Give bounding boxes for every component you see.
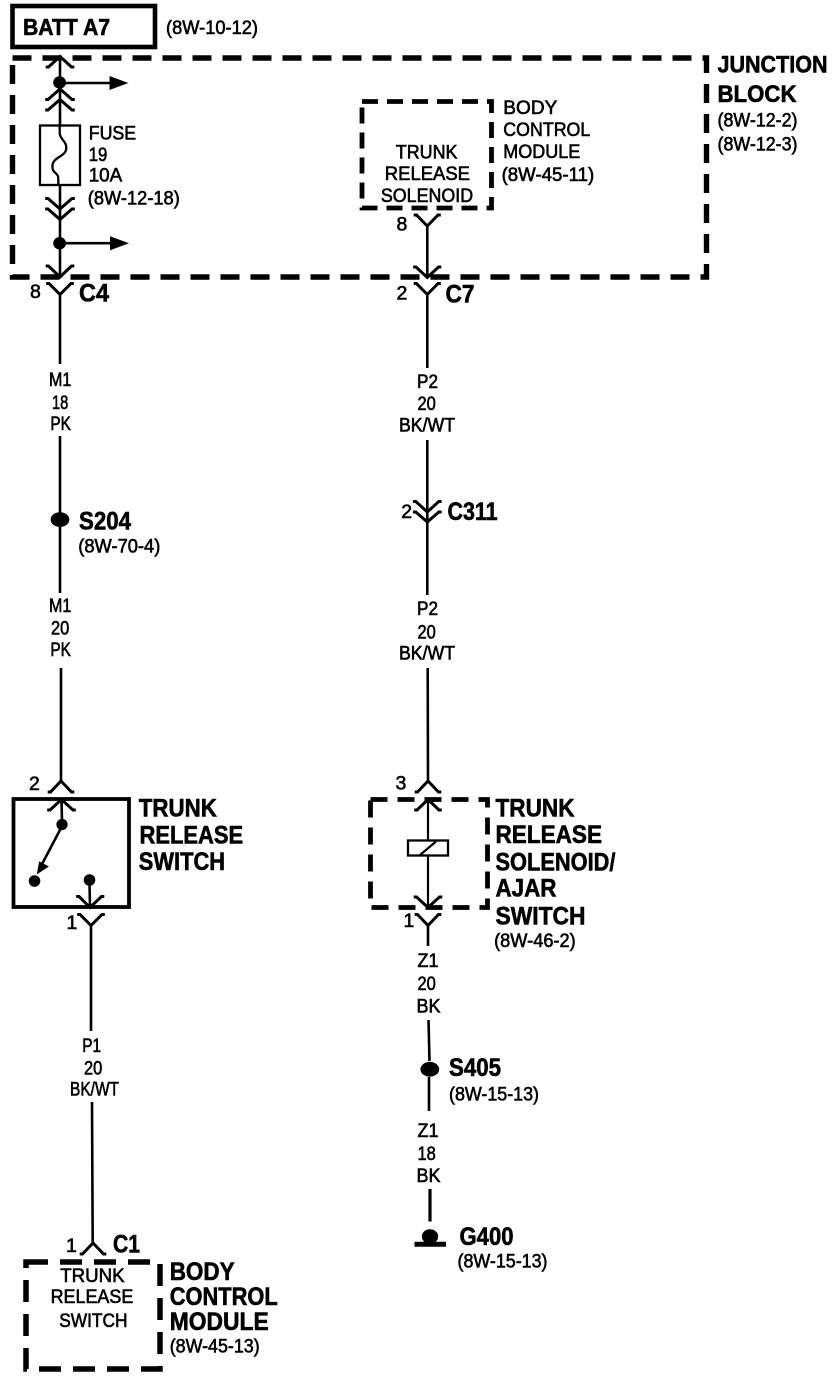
svg-text:RELEASE: RELEASE xyxy=(140,822,244,850)
pin 1 connector below solenoid box xyxy=(404,910,442,946)
double chevron above fuse xyxy=(45,89,75,110)
svg-text:G400: G400 xyxy=(460,1223,514,1251)
svg-text:SOLENOID/: SOLENOID/ xyxy=(496,848,616,876)
trunk release solenoid/ajar switch dashed box xyxy=(371,800,488,908)
feed arrow (bottom) xyxy=(60,236,129,250)
svg-text:18: 18 xyxy=(418,1144,436,1165)
svg-text:P2: P2 xyxy=(417,599,438,620)
junction node dot (top) xyxy=(53,76,66,88)
svg-text:19: 19 xyxy=(89,145,108,166)
wire to trunk release switch xyxy=(60,668,63,781)
svg-text:BODY: BODY xyxy=(503,98,557,119)
svg-text:AJAR: AJAR xyxy=(496,875,557,903)
svg-text:BK/WT: BK/WT xyxy=(399,415,455,436)
wire segment to C1 xyxy=(91,1102,94,1243)
svg-text:MODULE: MODULE xyxy=(170,1308,269,1336)
svg-text:TRUNK: TRUNK xyxy=(60,1266,125,1287)
svg-text:Z1: Z1 xyxy=(418,1121,439,1142)
svg-text:2: 2 xyxy=(29,773,40,795)
wire label Z1 20 BK xyxy=(417,951,441,1018)
svg-text:20: 20 xyxy=(418,622,436,643)
trunk release switch box xyxy=(14,799,130,907)
svg-text:(8W-46-2): (8W-46-2) xyxy=(494,931,576,952)
svg-text:S204: S204 xyxy=(79,507,131,535)
connector C311 xyxy=(401,498,497,526)
wire segment to splice xyxy=(59,436,62,513)
svg-text:(8W-15-13): (8W-15-13) xyxy=(449,1085,539,1106)
svg-text:CONTROL: CONTROL xyxy=(170,1283,278,1311)
fuse label FUSE 19 10A (8W-12-18) xyxy=(88,124,180,210)
svg-text:(8W-12-2): (8W-12-2) xyxy=(718,110,798,131)
solenoid coil symbol xyxy=(408,841,448,856)
chevron at C4 crossing xyxy=(46,266,75,277)
svg-text:S405: S405 xyxy=(449,1054,501,1082)
svg-text:18: 18 xyxy=(52,393,68,414)
wire fuse to C4 xyxy=(59,185,62,276)
svg-text:SWITCH: SWITCH xyxy=(496,902,586,930)
trunk release switch label xyxy=(139,795,243,876)
svg-text:2: 2 xyxy=(401,501,412,523)
svg-text:20: 20 xyxy=(418,974,436,995)
svg-text:M1: M1 xyxy=(49,370,71,391)
svg-text:(8W-12-3): (8W-12-3) xyxy=(718,134,798,155)
svg-text:C1: C1 xyxy=(113,1231,140,1259)
svg-text:BK/WT: BK/WT xyxy=(399,643,455,664)
svg-text:(8W-45-11): (8W-45-11) xyxy=(502,165,595,186)
wire solenoid to pin 1 xyxy=(427,856,429,908)
svg-text:1: 1 xyxy=(67,912,78,934)
pin 3 connector at solenoid/ajar switch xyxy=(396,773,442,795)
double chevron below fuse xyxy=(45,199,75,220)
svg-text:RELEASE: RELEASE xyxy=(496,821,603,849)
pin 2 connector at switch xyxy=(29,773,74,795)
svg-text:TRUNK: TRUNK xyxy=(139,795,217,823)
svg-text:3: 3 xyxy=(396,773,407,795)
wire label P2 20 BK/WT (lower) xyxy=(399,599,455,665)
svg-text:BATT A7: BATT A7 xyxy=(23,14,110,40)
wire C4 down xyxy=(59,295,62,365)
svg-text:8: 8 xyxy=(30,281,41,303)
svg-text:FUSE: FUSE xyxy=(89,124,137,145)
wire label P1 20 BK/WT xyxy=(70,1036,119,1101)
wire label Z1 18 BK xyxy=(417,1121,441,1187)
feed arrow (top) xyxy=(60,76,129,90)
svg-text:RELEASE: RELEASE xyxy=(385,164,470,185)
wire to C1 xyxy=(90,926,93,1032)
svg-text:BK: BK xyxy=(417,996,441,1017)
svg-text:C7: C7 xyxy=(446,281,475,309)
chevron inside switch box top xyxy=(47,800,76,811)
chevron inside solenoid box top xyxy=(414,800,442,811)
svg-text:CONTROL: CONTROL xyxy=(503,120,590,141)
svg-text:BLOCK: BLOCK xyxy=(718,81,798,108)
label TRUNK RELEASE SOLENOID/AJAR SWITCH (8W-46-2) xyxy=(494,795,615,952)
wire pin8 to C7 xyxy=(426,226,429,277)
splice S204 xyxy=(51,507,161,557)
connector C1 xyxy=(66,1231,140,1259)
svg-text:10A: 10A xyxy=(89,165,123,186)
chevron at C7 crossing xyxy=(413,267,441,278)
pin 1 connector below switch xyxy=(67,912,105,934)
wire BATT A7 to fuse xyxy=(59,57,62,126)
svg-text:SOLENOID: SOLENOID xyxy=(381,186,473,207)
svg-text:TRUNK: TRUNK xyxy=(496,795,575,823)
svg-text:1: 1 xyxy=(404,910,415,932)
svg-text:JUNCTION: JUNCTION xyxy=(718,52,828,79)
svg-text:(8W-45-13): (8W-45-13) xyxy=(170,1336,260,1357)
svg-text:C4: C4 xyxy=(79,280,109,308)
battery feed box BATT A7 xyxy=(13,6,156,47)
svg-text:RELEASE: RELEASE xyxy=(51,1287,134,1308)
chevron entering junction block xyxy=(46,57,75,68)
trunk release solenoid dashed box (in junction block) xyxy=(362,102,492,209)
wire splice down xyxy=(428,1077,431,1111)
wire to solenoid/ajar switch xyxy=(426,668,429,781)
svg-text:MODULE: MODULE xyxy=(503,142,580,163)
svg-text:SWITCH: SWITCH xyxy=(59,1311,127,1332)
BCM dashed box (bottom) xyxy=(26,1262,160,1369)
wire label M1 18 PK xyxy=(49,370,71,435)
svg-text:P2: P2 xyxy=(417,372,438,393)
svg-text:20: 20 xyxy=(51,618,69,639)
wire label M1 20 PK xyxy=(49,596,71,661)
svg-text:PK: PK xyxy=(50,414,71,435)
wire label P2 20 BK/WT (upper) xyxy=(399,372,455,437)
junction block label xyxy=(718,52,828,156)
svg-text:20: 20 xyxy=(418,394,436,415)
svg-text:1: 1 xyxy=(66,1235,77,1257)
fuse F19 xyxy=(40,126,80,186)
switch symbol xyxy=(29,800,96,907)
wire to ground xyxy=(428,1189,431,1222)
BCM label BODY CONTROL MODULE (8W-45-13) xyxy=(170,1258,278,1357)
svg-text:C311: C311 xyxy=(448,498,498,526)
ground G400 xyxy=(415,1223,548,1272)
svg-text:(8W-10-12): (8W-10-12) xyxy=(166,18,258,39)
junction block dashed box xyxy=(13,58,707,277)
svg-text:2: 2 xyxy=(397,283,408,305)
svg-text:(8W-15-13): (8W-15-13) xyxy=(458,1252,548,1273)
wire C7 down xyxy=(426,295,429,369)
svg-text:PK: PK xyxy=(50,640,71,661)
svg-text:TRUNK: TRUNK xyxy=(396,142,458,163)
svg-text:BK: BK xyxy=(417,1166,441,1187)
svg-text:BK/WT: BK/WT xyxy=(70,1079,119,1100)
svg-text:Z1: Z1 xyxy=(418,951,439,972)
splice S405 xyxy=(420,1054,539,1105)
junction node dot (bottom) xyxy=(53,237,66,249)
svg-text:M1: M1 xyxy=(49,596,71,617)
wire to splice S405 xyxy=(429,1020,430,1061)
connector C4 xyxy=(30,280,109,308)
svg-text:SWITCH: SWITCH xyxy=(139,848,225,876)
chevron inside solenoid box bottom xyxy=(414,897,443,908)
svg-text:(8W-12-18): (8W-12-18) xyxy=(88,189,180,210)
label BODY CONTROL MODULE (8W-45-11) xyxy=(502,98,595,186)
pin 8 connector below solenoid box xyxy=(397,214,441,236)
svg-text:BODY: BODY xyxy=(170,1258,235,1286)
wire to C311 xyxy=(426,440,429,595)
chevron inside switch box bottom xyxy=(76,897,104,908)
wire to solenoid coil xyxy=(427,800,429,842)
svg-text:(8W-70-4): (8W-70-4) xyxy=(78,537,160,558)
svg-text:20: 20 xyxy=(84,1058,102,1079)
svg-text:8: 8 xyxy=(397,214,408,236)
svg-text:P1: P1 xyxy=(82,1036,101,1057)
connector C7 xyxy=(397,281,475,309)
wire splice down xyxy=(59,527,62,593)
